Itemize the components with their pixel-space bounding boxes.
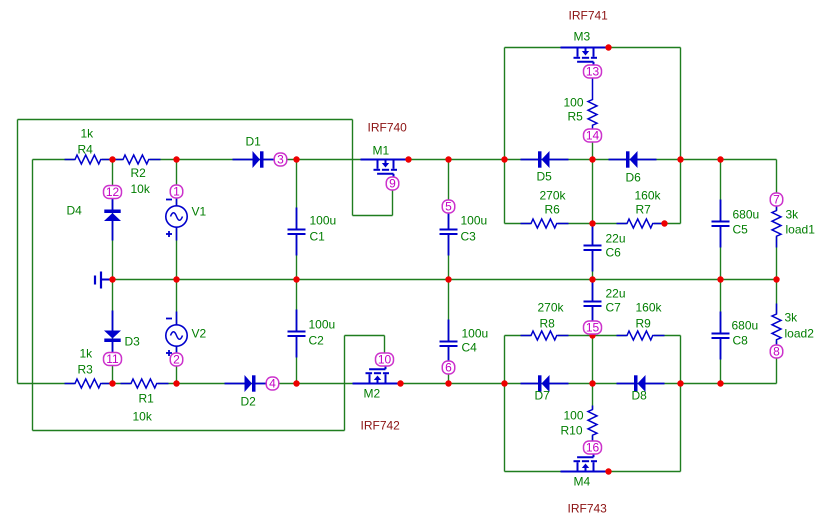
label C5 name [733, 223, 749, 237]
svg-text:C7: C7 [606, 301, 622, 315]
node 8 [770, 345, 783, 359]
transistor M3 [561, 48, 609, 66]
junction (720,383) [717, 380, 723, 386]
junction (112,383) [109, 380, 115, 386]
resistor R10 [587, 406, 599, 442]
node 12 [104, 185, 122, 199]
junction (176,383) [173, 380, 179, 386]
label D3 name [125, 335, 141, 349]
label R6 name [545, 203, 561, 217]
wire M4 box bottom [505, 471, 681, 473]
svg-text:R6: R6 [545, 203, 561, 217]
node 3 [274, 153, 287, 167]
svg-text:D3: D3 [125, 335, 141, 349]
diode D4 [104, 193, 121, 241]
label C4 name [462, 341, 478, 355]
wire V1 column [176, 160, 178, 280]
svg-text:5: 5 [445, 200, 452, 214]
node 9 [386, 177, 399, 191]
svg-text:8: 8 [773, 345, 780, 359]
svg-text:9: 9 [389, 177, 396, 191]
capacitor C6 [583, 224, 602, 272]
source V1 [166, 193, 187, 241]
svg-text:22u: 22u [606, 232, 626, 246]
svg-text:C5: C5 [733, 223, 749, 237]
label load2 value 3k [785, 311, 799, 325]
node 4 [266, 377, 279, 391]
wire R10 column [592, 384, 594, 442]
svg-text:270k: 270k [540, 189, 567, 203]
junction (720,159) [717, 156, 723, 162]
capacitor C8 [711, 312, 730, 360]
junction (296,159) [293, 156, 299, 162]
junction (504,159) [501, 156, 507, 162]
svg-text:D8: D8 [632, 389, 648, 403]
wire M2 gate loop vertical [344, 336, 346, 431]
label C7 name [606, 301, 622, 315]
wire V2 column [176, 280, 178, 384]
capacitor C7 [583, 280, 602, 328]
node 13 [584, 65, 602, 79]
wire left outer vertical [17, 120, 19, 384]
diode D5 [521, 151, 569, 168]
node 15 [584, 321, 602, 335]
svg-text:V1: V1 [192, 205, 207, 219]
wire C3 column [448, 160, 450, 280]
wire R8 R9 line [505, 335, 681, 337]
svg-text:load2: load2 [785, 327, 815, 341]
resistor R7 [617, 218, 665, 230]
svg-text:14: 14 [586, 129, 600, 143]
label D5 name [537, 170, 553, 184]
wire M1 gate feedback top [18, 119, 353, 121]
ground [95, 272, 111, 289]
wire mid rail [113, 279, 777, 281]
label M1 name [373, 144, 390, 158]
label C8 name [733, 334, 749, 348]
wire M1 gate loop vertical [352, 120, 354, 216]
node 7 [770, 193, 783, 207]
svg-text:R10: R10 [561, 424, 583, 438]
junction (448,159) [445, 156, 451, 162]
junction (608,47) [605, 44, 611, 50]
label R10 name [561, 424, 583, 438]
junction (664,223) [661, 220, 667, 226]
node 5 [442, 200, 455, 214]
svg-text:10k: 10k [131, 182, 151, 196]
svg-text:D4: D4 [67, 204, 83, 218]
label C4 value 100u [462, 327, 489, 341]
svg-text:IRF741: IRF741 [569, 9, 609, 23]
junction (776,279) [773, 276, 779, 282]
svg-text:R9: R9 [636, 317, 652, 331]
svg-text:R8: R8 [540, 317, 556, 331]
label R7 name [636, 203, 652, 217]
wire rail to C6 [592, 160, 594, 224]
svg-text:16: 16 [586, 441, 600, 455]
svg-text:D2: D2 [241, 395, 257, 409]
label C2 value 100u [309, 318, 336, 332]
resistor R5 [587, 78, 599, 130]
svg-text:4: 4 [269, 377, 276, 391]
label D1 name [246, 135, 262, 149]
svg-text:160k: 160k [636, 301, 663, 315]
label R6 value 270k [540, 189, 567, 203]
label D4 name [67, 204, 83, 218]
svg-text:load1: load1 [786, 223, 816, 237]
svg-text:D5: D5 [537, 170, 553, 184]
svg-text:M2: M2 [364, 387, 381, 401]
diode D2 [225, 375, 273, 392]
svg-text:D7: D7 [535, 389, 551, 403]
diode D8 [617, 375, 665, 392]
junction (720,279) [717, 276, 723, 282]
resistor R2 [113, 154, 161, 166]
svg-text:100: 100 [564, 96, 584, 110]
label M4 name [574, 475, 591, 489]
label R5 value 100 [564, 96, 584, 110]
wire C4 column [448, 280, 450, 384]
svg-text:680u: 680u [732, 319, 759, 333]
wire D3 column [112, 280, 114, 384]
svg-text:15: 15 [586, 321, 600, 335]
label R1 value 10k [133, 410, 153, 424]
label C5 value 680u [733, 208, 760, 222]
label M3 name [574, 30, 591, 44]
junction (504,383) [501, 380, 507, 386]
resistor R8 [521, 330, 569, 342]
label C3 name [461, 230, 477, 244]
svg-text:C1: C1 [310, 230, 326, 244]
node 14 [584, 129, 602, 143]
junction (296,383) [293, 380, 299, 386]
label C6 name [606, 246, 622, 260]
svg-text:C4: C4 [462, 341, 478, 355]
junction (448,279) [445, 276, 451, 282]
wire M2 gate loop horizontal [345, 335, 385, 337]
resistor R3 [65, 378, 113, 390]
label V1 name [192, 205, 207, 219]
junction (176,279) [173, 276, 179, 282]
label C6 value 22u [606, 232, 626, 246]
wire M1 gate loop horizontal [353, 215, 393, 217]
label load2 name [785, 327, 815, 341]
label R9 name [636, 317, 652, 331]
capacitor C1 [287, 208, 306, 256]
svg-text:D1: D1 [246, 135, 262, 149]
svg-text:3k: 3k [785, 311, 799, 325]
wire C6 column [592, 224, 594, 280]
wire C1 column [296, 160, 298, 280]
label R1 name [139, 392, 155, 406]
label R9 value 160k [636, 301, 663, 315]
wire lower rail [18, 383, 777, 385]
transistor M1 [361, 160, 409, 178]
svg-text:6: 6 [445, 361, 452, 375]
junction (608,471) [605, 468, 611, 474]
capacitor C2 [287, 310, 306, 358]
capacitor C3 [439, 208, 458, 256]
resistor R4 [65, 154, 113, 166]
junction (592,383) [589, 380, 595, 386]
wire load2 column [776, 280, 778, 384]
wire D4 column [112, 160, 114, 280]
wire M2 gate feedback bottom [33, 430, 345, 432]
svg-text:1: 1 [173, 185, 180, 199]
junction (112,279) [109, 276, 115, 282]
label R3 name [78, 363, 94, 377]
label R4 value 1k [81, 127, 95, 141]
svg-text:C6: C6 [606, 246, 622, 260]
label D8 name [632, 389, 648, 403]
label R5 name [568, 110, 584, 124]
wire C2 column [296, 280, 298, 384]
wire M3 box top [505, 47, 681, 49]
svg-text:D6: D6 [626, 171, 642, 185]
label M2 model IRF742 [361, 419, 401, 433]
svg-text:13: 13 [586, 65, 600, 79]
svg-text:3: 3 [277, 153, 284, 167]
svg-text:22u: 22u [606, 287, 626, 301]
svg-text:10k: 10k [133, 410, 153, 424]
junction (400,383) [397, 380, 403, 386]
svg-text:2: 2 [173, 353, 180, 367]
svg-text:1k: 1k [81, 127, 95, 141]
diode D7 [521, 375, 569, 392]
svg-text:100u: 100u [462, 327, 489, 341]
svg-text:100u: 100u [309, 318, 336, 332]
svg-text:R5: R5 [568, 110, 584, 124]
svg-text:3k: 3k [786, 208, 800, 222]
svg-text:R2: R2 [131, 166, 147, 180]
node 11 [104, 352, 122, 366]
svg-text:680u: 680u [733, 208, 760, 222]
junction (592,335) [589, 332, 595, 338]
label R3 value 1k [80, 347, 94, 361]
svg-text:V2: V2 [192, 327, 207, 341]
svg-text:IRF740: IRF740 [368, 121, 408, 135]
label C1 value 100u [310, 214, 337, 228]
label D6 name [626, 171, 642, 185]
svg-text:100u: 100u [310, 214, 337, 228]
svg-text:R4: R4 [78, 143, 94, 157]
svg-text:7: 7 [773, 193, 780, 207]
svg-text:C3: C3 [461, 230, 477, 244]
svg-text:270k: 270k [538, 301, 565, 315]
label R7 value 160k [635, 189, 662, 203]
resistor load2 [771, 304, 783, 346]
wire M3 box right [680, 48, 682, 224]
node 1 [170, 185, 183, 199]
label D7 name [535, 389, 551, 403]
transistor M2 [353, 366, 401, 384]
junction (296,279) [293, 276, 299, 282]
diode D6 [609, 151, 657, 168]
label R2 value 10k [131, 182, 151, 196]
svg-text:12: 12 [106, 185, 120, 199]
wire M4 box right [680, 336, 682, 472]
svg-text:M1: M1 [373, 144, 390, 158]
resistor R9 [617, 330, 665, 342]
resistor R6 [521, 218, 569, 230]
svg-text:C8: C8 [733, 334, 749, 348]
node 10 [376, 353, 394, 367]
label M4 model IRF743 [568, 502, 608, 516]
label R8 value 270k [538, 301, 565, 315]
node 2 [170, 353, 183, 367]
wire C7 column [592, 280, 594, 328]
svg-text:R7: R7 [636, 203, 652, 217]
junction (592,279) [589, 276, 595, 282]
node 6 [442, 361, 455, 375]
label D2 name [241, 395, 257, 409]
resistor load1 [771, 206, 783, 248]
svg-text:100u: 100u [461, 214, 488, 228]
wire C5 column [720, 160, 722, 280]
svg-text:11: 11 [106, 352, 119, 366]
diode D1 [233, 151, 281, 168]
wire node14 to rail [592, 142, 594, 160]
junction (592,223) [589, 220, 595, 226]
label C2 name [309, 334, 325, 348]
diode D3 [104, 311, 121, 359]
resistor R1 [121, 378, 169, 390]
capacitor C5 [711, 200, 730, 248]
junction (680,159) [677, 156, 683, 162]
label load1 value 3k [786, 208, 800, 222]
svg-text:M3: M3 [574, 30, 591, 44]
svg-text:IRF742: IRF742 [361, 419, 401, 433]
wire M1 gate stub [392, 190, 394, 216]
wire node15 to R8 line [592, 334, 594, 336]
label C3 value 100u [461, 214, 488, 228]
label M2 name [364, 387, 381, 401]
junction (680,383) [677, 380, 683, 386]
wire R6 R7 line [505, 223, 681, 225]
wire load1 column [776, 160, 778, 280]
svg-text:1k: 1k [80, 347, 94, 361]
junction (592,159) [589, 156, 595, 162]
label C1 name [310, 230, 326, 244]
label R10 value 100 [564, 409, 584, 423]
svg-text:M4: M4 [574, 475, 591, 489]
wire upper rail [33, 159, 777, 161]
junction (448,383) [445, 380, 451, 386]
svg-text:IRF743: IRF743 [568, 502, 608, 516]
label M1 model IRF740 [368, 121, 408, 135]
junction (176,159) [173, 156, 179, 162]
svg-text:R1: R1 [139, 392, 155, 406]
label C7 value 22u [606, 287, 626, 301]
wire M2 gate feedback vertical [32, 160, 34, 431]
wire M3 box left [504, 48, 506, 224]
label load1 name [786, 223, 816, 237]
svg-text:R3: R3 [78, 363, 94, 377]
junction (408,159) [405, 156, 411, 162]
svg-text:C2: C2 [309, 334, 325, 348]
wire R8 line to lower rail [592, 336, 594, 384]
source V2 [166, 312, 187, 360]
capacitor C4 [439, 320, 458, 368]
transistor M4 [561, 454, 609, 472]
label V2 name [192, 327, 207, 341]
label M3 model IRF741 [569, 9, 609, 23]
wire M2 gate stub [384, 336, 386, 354]
label R4 name [78, 143, 94, 157]
svg-text:100: 100 [564, 409, 584, 423]
node 16 [584, 441, 602, 455]
label R2 name [131, 166, 147, 180]
label R8 name [540, 317, 556, 331]
svg-text:10: 10 [378, 353, 392, 367]
wire C8 column [720, 280, 722, 384]
junction (112,159) [109, 156, 115, 162]
label C8 value 680u [732, 319, 759, 333]
svg-text:160k: 160k [635, 189, 662, 203]
wire M4 box left [504, 336, 506, 472]
